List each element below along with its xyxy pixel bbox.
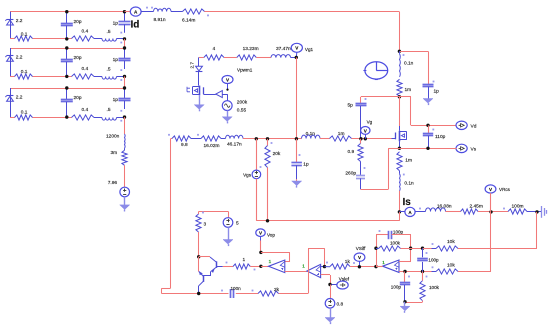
wire snubber return <box>361 148 389 189</box>
wire bus segment below cell2 <box>124 76 126 88</box>
current probe Id <box>130 7 141 31</box>
transistor Q4 (power NMOS) <box>392 126 407 148</box>
svg-text:1k: 1k <box>345 259 351 265</box>
resistor R20 1k <box>325 259 351 269</box>
svg-text:1p: 1p <box>113 57 119 63</box>
resistor R3a 0.1 <box>15 110 33 120</box>
wire node row <box>257 220 400 221</box>
wire source row <box>388 148 456 150</box>
zener diode D3 2.2 <box>5 88 22 117</box>
resistor R2a 0.1 <box>15 69 33 79</box>
svg-text:VRcs: VRcs <box>499 187 511 192</box>
svg-text:100k: 100k <box>390 241 401 246</box>
svg-text:1p: 1p <box>303 162 309 168</box>
node Vg1 column joins <box>295 137 298 140</box>
svg-text:0.1n: 0.1n <box>306 131 316 137</box>
capacitor C9 260p <box>345 162 365 190</box>
svg-text:2.2: 2.2 <box>16 18 23 24</box>
ground under V4 <box>325 308 335 324</box>
svg-text:.5: .5 <box>107 107 111 113</box>
wire fb row to 10k <box>401 248 423 250</box>
transistor Q2 (PNP) <box>199 271 204 285</box>
wire U4 plus input <box>321 275 331 285</box>
wire Vop stub <box>260 237 262 253</box>
svg-text:6.14m: 6.14m <box>182 18 195 24</box>
wire R20 to VSiff node <box>350 262 376 266</box>
svg-text:Id: Id <box>131 20 140 31</box>
wire corner to C 1p <box>399 51 428 84</box>
svg-text:0.8: 0.8 <box>337 302 344 308</box>
wire bus to source <box>124 165 126 187</box>
node 100p branch <box>403 270 406 273</box>
wire R15 to VRcs node <box>478 211 508 213</box>
wire buffer input node <box>227 94 229 101</box>
capacitor C6 110p <box>423 125 446 148</box>
voltage probe Vg <box>361 119 373 138</box>
inductor L10 0.1n <box>400 171 415 191</box>
resistor R5 6.14m <box>182 9 209 24</box>
resistor R13 0.9 <box>348 139 364 162</box>
inductor L1a .5 <box>102 29 122 43</box>
wire Q1 base row <box>223 266 233 268</box>
svg-text:0.9: 0.9 <box>348 149 355 155</box>
inductor L8 46.17n <box>221 135 243 147</box>
wire U5 feedback left <box>376 235 388 267</box>
wire R19 to node <box>250 267 261 271</box>
wire to V4 <box>330 285 332 299</box>
svg-text:1: 1 <box>243 257 246 263</box>
op-amp U4 <box>302 263 320 277</box>
svg-text:Vpwm1: Vpwm1 <box>237 68 253 73</box>
resistor R14 1m <box>397 152 412 171</box>
wire cell1 bottom row <box>10 38 125 40</box>
svg-text:5p: 5p <box>348 103 354 109</box>
svg-text:20k: 20k <box>273 151 281 157</box>
zener diode D1 2.2 <box>5 12 22 39</box>
voltage source V3 5 <box>223 211 239 227</box>
svg-text:Vg1: Vg1 <box>305 47 314 52</box>
wire gate row left corner <box>171 138 173 140</box>
resistor R6 4 <box>204 46 224 60</box>
inductor L9 0.1n <box>302 131 321 139</box>
svg-text:4: 4 <box>213 46 216 52</box>
node source <box>398 147 401 150</box>
resistor R18 2k <box>252 287 280 296</box>
svg-text:100k: 100k <box>429 285 440 290</box>
svg-text:100n: 100n <box>231 286 242 291</box>
svg-text:5: 5 <box>236 221 239 227</box>
inductor L3a .5 <box>102 107 122 122</box>
wire drain stub <box>399 97 401 126</box>
svg-text:0.1: 0.1 <box>21 32 28 38</box>
op-amp U5 <box>376 260 399 273</box>
node 10k1 left <box>421 247 424 250</box>
wire cell2 bottom row <box>10 76 125 78</box>
svg-text:VSiff: VSiff <box>356 246 366 251</box>
wire bus segment below cell1 <box>124 39 126 48</box>
node cell2 cap top <box>65 46 68 49</box>
wire Q1-Q2 emitters <box>203 271 211 275</box>
node cell1 cap top <box>65 10 68 13</box>
ground under V1 <box>120 197 130 212</box>
clock symbol <box>363 62 387 80</box>
node cell3 cap bottom <box>65 115 68 118</box>
svg-text:0.4: 0.4 <box>82 107 89 113</box>
node bus top / Id branch <box>125 11 131 13</box>
wire drain to Vd <box>399 97 456 126</box>
node top-right corner <box>398 50 401 53</box>
ground under C5 <box>423 99 433 106</box>
resistor R8 1m <box>397 79 411 96</box>
svg-text:2.2: 2.2 <box>16 54 23 60</box>
resistor R19 1 <box>226 257 251 269</box>
node Vgs branch <box>255 137 258 140</box>
svg-text:10k: 10k <box>447 239 455 245</box>
svg-text:10k: 10k <box>447 263 455 269</box>
svg-text:100p: 100p <box>393 229 404 234</box>
node drain <box>398 95 401 98</box>
wire C11 right <box>392 235 411 262</box>
node Q2 bottom <box>197 292 200 295</box>
svg-text:2.45m: 2.45m <box>470 204 483 210</box>
wire L8 to nodes <box>243 138 302 140</box>
node cell3 cap top <box>65 86 68 89</box>
wire opampA feedback loop <box>261 252 290 262</box>
capacitor C1b 1p (bus) <box>113 12 131 33</box>
wire 100k bottom <box>405 301 423 303</box>
node right ground <box>535 210 538 213</box>
wire R16 to ground <box>527 211 541 213</box>
node 20k bottom <box>266 219 269 222</box>
capacitor C2a 20p <box>61 48 82 76</box>
svg-text:Vslef: Vslef <box>339 277 350 282</box>
svg-text:20p: 20p <box>74 19 82 25</box>
op-amp U3 <box>269 259 285 272</box>
node Q1 collector <box>197 255 200 258</box>
wire cell3 bottom row <box>10 117 125 119</box>
inductor L4 1200n <box>106 134 125 149</box>
ground under Q3 <box>194 95 204 111</box>
resistor R2b 0.4 <box>72 66 95 79</box>
inductor L7 0.1n <box>400 51 414 77</box>
inductor L2a .5 <box>102 66 122 81</box>
capacitor C11 100p <box>379 229 404 239</box>
node Vslef <box>328 283 331 286</box>
resistor R12 20k <box>265 139 281 221</box>
wire left tall vertical <box>162 139 171 294</box>
wire collector stub <box>199 256 210 258</box>
wire drain to C7 <box>361 96 399 98</box>
capacitor C7 5p <box>348 97 367 139</box>
voltage probe Vop <box>256 229 276 237</box>
node opampA feedback <box>259 251 262 254</box>
node bus cell3 bottom <box>123 115 126 118</box>
svg-text:37.47n: 37.47n <box>276 46 291 52</box>
wire Q2 upper to node <box>198 257 200 272</box>
voltage source V4 0.8 <box>325 299 343 309</box>
wire to Is node <box>399 191 401 212</box>
svg-text:0.1: 0.1 <box>21 110 28 116</box>
node bus cell1 top <box>123 10 126 13</box>
wire R9-R10 <box>191 138 201 140</box>
wire cell1 top rail <box>10 11 125 13</box>
wire row2 left corner <box>199 57 204 59</box>
voltage probe Vg1 <box>291 43 313 57</box>
svg-text:1p: 1p <box>113 21 119 27</box>
capacitor C8 1p <box>291 139 309 179</box>
wire top rail to right <box>205 11 400 13</box>
wire cell3 top rail <box>10 88 125 90</box>
resistor R10 16.02m <box>197 134 221 149</box>
ground under C12 <box>400 302 410 313</box>
node ground join <box>403 300 406 303</box>
svg-text:1p: 1p <box>113 97 119 103</box>
resistor R11 1m <box>330 131 352 141</box>
capacitor C3b 1p (bus) <box>113 88 131 109</box>
svg-text:1200n: 1200n <box>106 134 120 140</box>
wire R6 to R7 <box>224 57 237 59</box>
resistor R3b 0.4 <box>72 107 95 120</box>
wire Q2 lower to row <box>198 286 200 294</box>
node cell2 cap bottom <box>65 75 68 78</box>
wire probe to L11 <box>415 208 425 212</box>
port Vd <box>456 121 477 129</box>
svg-text:200k: 200k <box>237 99 248 105</box>
wire L6 to Vg1 node <box>291 57 297 59</box>
svg-text:1m: 1m <box>405 158 412 164</box>
node Vs cap <box>426 147 429 150</box>
svg-text:.5: .5 <box>107 66 111 72</box>
resistor R23 10k <box>429 263 458 275</box>
wire L9-R11 <box>320 138 330 140</box>
resistor R4 3m <box>111 148 128 165</box>
wire top rail drop <box>399 12 401 52</box>
wire Is riser <box>399 212 401 221</box>
ground (sideways) <box>542 206 547 218</box>
resistor R1a 0.1 <box>15 32 33 42</box>
resistor R24 100k <box>420 272 440 301</box>
svg-text:Vgs: Vgs <box>243 173 252 178</box>
node U4 minus input <box>321 265 327 268</box>
node Is <box>398 210 401 213</box>
ground under V3 <box>223 227 233 246</box>
wire U3 out to U4 out <box>285 271 307 273</box>
svg-text:2.7: 2.7 <box>189 62 194 69</box>
voltage probe Vpwm1 <box>222 68 253 91</box>
node VRcs <box>489 210 492 213</box>
resistor R1b 0.4 <box>72 29 95 41</box>
node U5 output <box>374 265 377 268</box>
wire 537 column <box>458 212 537 249</box>
svg-text:9.8: 9.8 <box>181 142 188 148</box>
wire bus below cell3 <box>124 117 126 134</box>
svg-text:2k: 2k <box>274 287 280 293</box>
svg-text:Is: Is <box>403 197 412 208</box>
svg-text:16.02m: 16.02m <box>204 143 220 149</box>
svg-text:46.17n: 46.17n <box>227 141 242 147</box>
inductor L6 37.47n <box>271 46 291 58</box>
wire U5 plus row <box>399 271 429 273</box>
node R21 right <box>409 247 412 250</box>
svg-text:.5: .5 <box>107 29 111 35</box>
svg-text:20p: 20p <box>74 55 82 61</box>
wire 491 column <box>458 212 491 272</box>
current probe Is <box>399 197 415 216</box>
svg-text:0.1: 0.1 <box>21 69 28 75</box>
voltage source V1 7.96 <box>108 180 130 197</box>
svg-text:100p: 100p <box>428 258 439 263</box>
wire probe to L5 <box>141 7 153 12</box>
node Vg1 <box>295 56 298 59</box>
svg-text:3m: 3m <box>111 150 118 156</box>
svg-text:260p: 260p <box>345 171 356 177</box>
svg-text:7.96: 7.96 <box>108 180 118 186</box>
source V2 200k 0.55 <box>222 99 248 113</box>
svg-text:0.4: 0.4 <box>82 66 89 72</box>
svg-text:Vg: Vg <box>367 119 373 124</box>
voltage probe VSiff <box>354 246 366 268</box>
capacitor C12 100p <box>391 272 410 302</box>
node bus cell1 bottom <box>123 37 126 40</box>
node 100k branch <box>421 270 424 273</box>
voltage probe VRcs <box>485 185 511 212</box>
capacitor C13 100p <box>417 248 439 271</box>
node Vg probe <box>364 137 367 140</box>
capacitor C5 1p <box>423 81 440 99</box>
resistor R21 100k (fb) <box>376 241 401 252</box>
wire R17 down <box>198 232 200 257</box>
zener diode D2 2.2 <box>5 48 22 76</box>
probe Vslef <box>332 277 350 289</box>
inductor L11 16.08n <box>426 204 452 212</box>
svg-text:0.1n: 0.1n <box>404 61 414 67</box>
node cell1 cap bottom <box>65 37 68 40</box>
node 20k branch <box>266 137 269 140</box>
transistor Q1 (NPN) <box>210 257 223 273</box>
resistor R7 13.23m <box>237 46 259 60</box>
port Vs <box>456 144 477 152</box>
wire bottom row <box>162 293 309 295</box>
wire U4 feedback <box>308 248 325 293</box>
svg-text:0.55: 0.55 <box>237 108 247 114</box>
resistor R22 10k <box>423 239 459 251</box>
svg-text:1p: 1p <box>434 89 440 95</box>
svg-text:Vd: Vd <box>471 124 477 130</box>
svg-text:1m: 1m <box>338 131 345 137</box>
resistor R17 3 <box>196 212 207 232</box>
node opampA input <box>259 265 262 268</box>
resistor R16 100m <box>503 204 527 215</box>
node bus cell3 top <box>123 86 126 89</box>
wire opampA input stub <box>261 266 269 268</box>
svg-text:1m: 1m <box>405 87 412 93</box>
resistor R15 2.45m <box>461 204 483 214</box>
node U5 fb 100k <box>374 247 377 250</box>
ground under C8 <box>292 179 302 187</box>
capacitor C2b 1p (bus) <box>113 48 131 69</box>
svg-text:13.23m: 13.23m <box>243 46 259 52</box>
capacitor C3a 20p <box>61 88 82 117</box>
svg-text:8.91n: 8.91n <box>154 17 166 23</box>
node bus cell2 bottom <box>123 75 126 78</box>
voltage source Vgs <box>243 139 261 221</box>
resistor R9 9.8 <box>168 134 191 148</box>
wire Vg1 column down <box>296 57 298 138</box>
capacitor C1a 20p <box>61 12 82 39</box>
svg-text:100p: 100p <box>391 285 402 290</box>
inductor L5 8.91n <box>154 8 172 23</box>
wire cell2 top rail <box>10 48 125 50</box>
transistor Q3 (small NMOS) <box>187 86 216 96</box>
svg-text:16.08n: 16.08n <box>437 204 452 210</box>
ground under V2 <box>222 111 232 124</box>
diode D4 2.7 <box>189 57 202 85</box>
svg-text:0.4: 0.4 <box>82 29 89 35</box>
buffer U2 <box>216 91 227 98</box>
wire R7 to L6 <box>256 57 271 59</box>
node 5p cap bottom <box>359 137 362 140</box>
svg-text:100m: 100m <box>512 204 524 210</box>
node Vd cap <box>426 124 429 127</box>
svg-text:Vs: Vs <box>471 147 477 153</box>
capacitor C10 100n <box>221 286 241 298</box>
wire R11 to gate <box>352 138 392 140</box>
svg-text:110p: 110p <box>435 134 446 140</box>
wire L11-R15 <box>446 211 461 213</box>
wire L5 to R5 <box>171 11 183 13</box>
svg-text:2.2: 2.2 <box>16 94 23 100</box>
svg-text:0.1n: 0.1n <box>404 181 414 187</box>
svg-text:3: 3 <box>204 222 207 228</box>
svg-text:20p: 20p <box>74 95 82 101</box>
node bus cell2 top <box>123 46 126 49</box>
wire top bias <box>199 211 229 214</box>
svg-text:Vop: Vop <box>267 232 275 237</box>
